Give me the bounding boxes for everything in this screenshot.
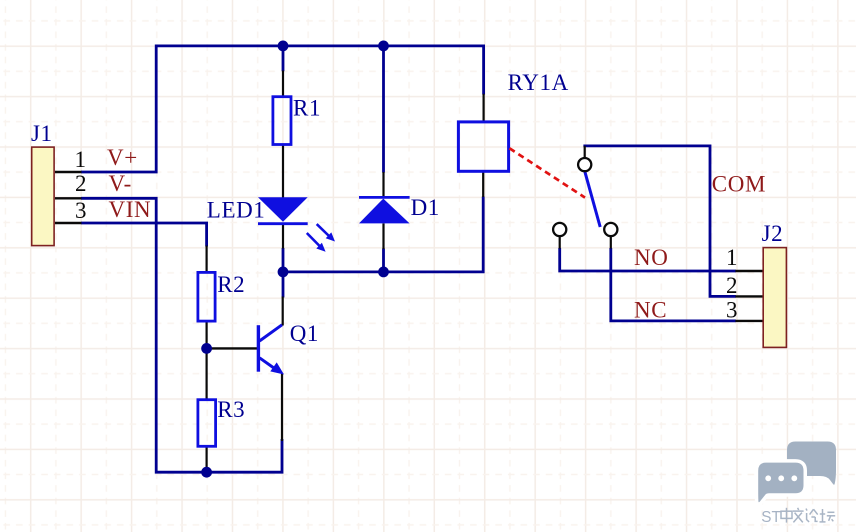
resistor R1 bbox=[273, 97, 291, 145]
R3 bottom pin bbox=[206, 447, 208, 472]
relay coil pin 2 bbox=[482, 172, 484, 197]
J2 pin 3 bbox=[735, 320, 763, 322]
J1 pin 3 bbox=[55, 222, 82, 224]
switch COM contact stub bbox=[584, 146, 586, 159]
junction coil rail at LED branch bbox=[278, 267, 289, 278]
wire top rail to R1 bbox=[282, 46, 285, 71]
svg-text:1: 1 bbox=[726, 245, 738, 270]
wire coil bottom rail to relay pin 2 bbox=[283, 197, 483, 272]
svg-text:NC: NC bbox=[634, 297, 667, 322]
svg-text:R3: R3 bbox=[217, 397, 245, 422]
junction top rail at D1 branch bbox=[378, 41, 389, 52]
J2 pin 1 bbox=[735, 270, 763, 272]
svg-text:R1: R1 bbox=[293, 95, 321, 120]
R1 top pin bbox=[282, 71, 284, 97]
Q1 collector stroke bbox=[260, 325, 283, 341]
J2 pin 2 bbox=[735, 295, 763, 297]
svg-text:RY1A: RY1A bbox=[508, 70, 569, 95]
LED1 emission arrow 2 bbox=[307, 233, 326, 252]
switch NC contact stub bbox=[610, 236, 612, 249]
switch NO contact stub bbox=[559, 236, 561, 249]
wire COM net: switch common to J2 pin2 bbox=[583, 146, 735, 297]
R2 bottom pin bbox=[206, 322, 208, 349]
svg-text:J2: J2 bbox=[762, 221, 784, 246]
J1 pin 1 bbox=[55, 171, 82, 173]
watermark logo front bubble bbox=[758, 463, 803, 503]
svg-text:V-: V- bbox=[109, 171, 132, 196]
svg-text:ST: ST bbox=[761, 509, 781, 526]
svg-text:VIN: VIN bbox=[109, 197, 152, 222]
R1 bottom pin / LED1 anode pin bbox=[282, 146, 284, 198]
junction R2/R3/base node bbox=[201, 343, 212, 354]
svg-text:R2: R2 bbox=[217, 272, 245, 297]
switch COM contact circle bbox=[578, 158, 591, 171]
wire V- net: J1 pin2 down left side to bottom rail to Q1 emitter bbox=[81, 198, 282, 472]
resistor R2 bbox=[198, 272, 215, 321]
D1 cathode bar bbox=[359, 196, 410, 199]
connector J1 body bbox=[32, 147, 54, 246]
watermark logo back bubble bbox=[787, 442, 836, 485]
transistor Q1 base bar bbox=[257, 325, 260, 372]
watermark text CJK strokes bbox=[781, 508, 835, 523]
svg-text:Q1: Q1 bbox=[290, 321, 319, 346]
wire NO net: contact to J2 pin1 bbox=[560, 248, 736, 271]
wire NC net: contact to J2 pin3 bbox=[611, 248, 736, 321]
resistor R3 bbox=[198, 400, 216, 447]
junction bottom rail at R3 bbox=[201, 467, 212, 478]
R3 top pin bbox=[206, 353, 208, 399]
wire LED1 cathode to coil bottom rail bbox=[282, 248, 285, 272]
svg-text:2: 2 bbox=[75, 171, 87, 196]
switch NO contact circle bbox=[553, 223, 566, 236]
junction top rail at R1 branch bbox=[278, 41, 289, 52]
svg-text:J1: J1 bbox=[31, 121, 53, 146]
Q1 collector pin bbox=[282, 297, 284, 326]
D1 cathode pin bbox=[382, 172, 384, 197]
wire VIN net: J1 pin3 to R2 top bbox=[81, 223, 207, 247]
relay coil RY1A bbox=[458, 122, 508, 171]
LED1 cathode bar bbox=[258, 222, 308, 225]
switch NC contact circle bbox=[604, 223, 617, 236]
wire coil rail junction down to Q1 collector bbox=[282, 272, 285, 298]
switch arm bbox=[585, 172, 600, 227]
svg-text:3: 3 bbox=[726, 297, 738, 322]
svg-text:3: 3 bbox=[75, 198, 87, 223]
connector J2 body bbox=[763, 248, 786, 348]
R2 top pin bbox=[206, 246, 208, 272]
wire V+ net: J1 pin1 to top rail to relay coil top bbox=[81, 46, 484, 172]
relay coil pin 1 bbox=[483, 94, 485, 121]
diode D1 triangle bbox=[359, 199, 410, 224]
svg-text:NO: NO bbox=[634, 245, 668, 270]
LED1 cathode pin bbox=[282, 223, 284, 249]
junction coil rail at D1 branch bbox=[378, 267, 389, 278]
svg-text:COM: COM bbox=[712, 172, 766, 197]
svg-text:1: 1 bbox=[75, 147, 87, 172]
Q1 base pin bbox=[211, 347, 258, 349]
LED1 emission arrow 1 bbox=[317, 224, 335, 241]
svg-text:LED1: LED1 bbox=[207, 198, 266, 223]
Q1 emitter pin bbox=[281, 373, 283, 441]
wire top rail to D1 bbox=[382, 46, 385, 173]
D1 anode pin bbox=[382, 224, 384, 250]
svg-text:D1: D1 bbox=[411, 195, 440, 220]
LED LED1 triangle bbox=[258, 197, 308, 221]
wire D1 anode to coil bottom rail bbox=[382, 249, 385, 273]
svg-text:2: 2 bbox=[726, 273, 738, 298]
J1 pin 2 bbox=[55, 197, 82, 199]
Q1 emitter stroke with arrow bbox=[260, 358, 285, 375]
svg-text:V+: V+ bbox=[107, 145, 138, 170]
relay actuation dashed link bbox=[510, 148, 586, 197]
